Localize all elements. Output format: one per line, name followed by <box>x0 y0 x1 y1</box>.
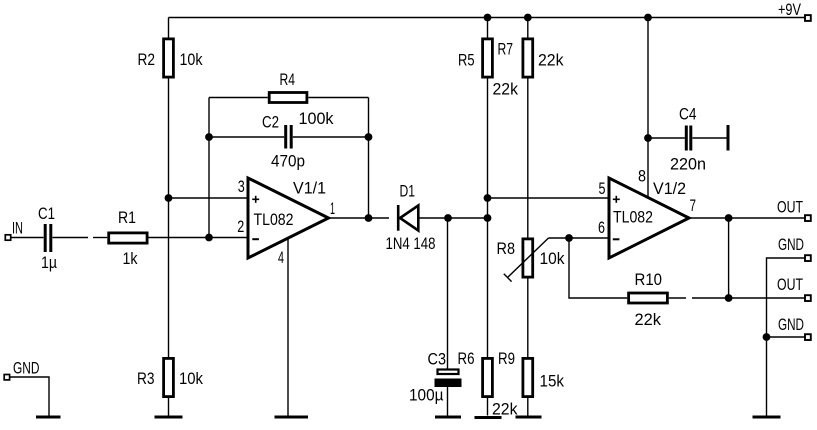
ground (C3) <box>435 416 461 419</box>
capacitor C2 <box>262 113 305 171</box>
svg-text:R3: R3 <box>137 369 155 388</box>
ground (input) <box>36 416 61 419</box>
wire pin3 <box>169 197 249 199</box>
wire C4 right <box>692 137 726 139</box>
wire C2 left <box>209 136 284 138</box>
wire C1-R1 <box>53 237 89 239</box>
wire R7-R8 <box>527 78 529 238</box>
wire pin6 <box>569 237 609 239</box>
node GND1-GND2 <box>763 333 771 341</box>
svg-text:R4: R4 <box>280 70 296 89</box>
OUT terminal 2 <box>777 275 811 301</box>
wire +9V rail <box>169 17 805 19</box>
svg-text:C2: C2 <box>262 113 279 132</box>
wire R2-R3 <box>168 79 170 358</box>
svg-text:TL082: TL082 <box>613 208 653 227</box>
node C3 branch <box>444 214 452 222</box>
wire R4 right <box>308 97 368 99</box>
svg-text:100µ: 100µ <box>409 386 444 405</box>
svg-text:7: 7 <box>690 196 697 215</box>
node bias-pin3 <box>165 194 173 202</box>
svg-text:10k: 10k <box>180 50 203 69</box>
svg-text:22k: 22k <box>492 400 518 419</box>
R8 wiper arrow <box>504 238 569 282</box>
svg-text:470p: 470p <box>271 152 305 171</box>
svg-text:2: 2 <box>237 217 244 236</box>
GND input terminal <box>4 359 39 380</box>
wire C1-R1 second segment <box>93 237 107 239</box>
+9V terminal <box>778 0 811 21</box>
svg-text:1N4 148: 1N4 148 <box>386 234 436 253</box>
wire R4 left <box>209 97 268 99</box>
ground (R6) <box>475 416 502 419</box>
svg-text:3: 3 <box>238 177 245 196</box>
svg-text:OUT: OUT <box>777 275 803 294</box>
capacitor C4 <box>670 105 706 174</box>
wire IN-C1 <box>11 237 44 239</box>
node divider-pin5 <box>484 194 492 202</box>
wire op1 output <box>329 217 390 219</box>
wire pin8 <box>647 18 649 198</box>
svg-text:R10: R10 <box>635 270 663 289</box>
wire R1-pin2 <box>149 237 249 239</box>
op-amp U1 (V1/1 TL082) <box>248 178 329 258</box>
node R10-OUT2 <box>725 294 733 302</box>
svg-text:1k: 1k <box>123 249 138 268</box>
ground (R9) <box>516 416 542 419</box>
svg-text:4: 4 <box>278 248 284 267</box>
wire GND input <box>10 377 49 416</box>
wire C3 <box>447 218 449 369</box>
svg-text:R1: R1 <box>118 208 136 227</box>
svg-text:C3: C3 <box>428 350 447 369</box>
svg-text:V1/2: V1/2 <box>653 179 686 198</box>
wire R5-R6 <box>487 78 489 358</box>
wire OUT-R10 <box>728 218 730 298</box>
svg-text:C4: C4 <box>679 105 697 124</box>
resistor R6 <box>458 349 518 419</box>
wire R10 right <box>669 297 686 299</box>
ground (pin4) <box>275 416 309 419</box>
svg-text:R2: R2 <box>138 50 156 69</box>
svg-text:10k: 10k <box>179 369 203 388</box>
wire R8-R9 <box>527 279 529 358</box>
svg-text:22k: 22k <box>493 80 519 99</box>
wire OUT2 <box>729 297 805 299</box>
svg-text:OUT: OUT <box>777 198 803 217</box>
op-amp U2 (V1/2 TL082) <box>609 178 689 258</box>
wire pin5 <box>488 197 610 199</box>
svg-text:5: 5 <box>599 179 606 198</box>
svg-text:R6: R6 <box>458 349 475 368</box>
diode D1 <box>386 182 436 254</box>
GND terminal 2 <box>778 315 811 340</box>
svg-text:8: 8 <box>638 167 646 186</box>
OUT terminal 1 <box>777 198 811 222</box>
wire D1-divider <box>418 217 487 219</box>
svg-text:GND: GND <box>778 235 804 254</box>
potentiometer R8 <box>497 239 565 277</box>
node rail-R7 <box>524 14 532 22</box>
svg-text:22k: 22k <box>538 51 564 70</box>
node output-OUT <box>725 214 733 222</box>
svg-text:6: 6 <box>598 218 605 237</box>
capacitor C1 <box>38 204 57 272</box>
ground (right) <box>753 416 781 419</box>
svg-text:IN: IN <box>12 219 23 238</box>
svg-text:15k: 15k <box>540 372 565 391</box>
resistor R7 <box>498 18 564 78</box>
wire R10 right second segment <box>692 297 729 299</box>
svg-text:220n: 220n <box>670 155 706 174</box>
wire pin4 <box>287 238 289 416</box>
svg-text:100k: 100k <box>299 109 334 128</box>
C4 end bar <box>727 125 730 151</box>
node feedback-pin2 <box>205 234 213 242</box>
wire GND2 <box>767 336 805 338</box>
wire feedback left <box>208 98 210 238</box>
svg-text:D1: D1 <box>400 182 416 201</box>
node wiper-pin6 <box>565 234 573 242</box>
svg-text:R8: R8 <box>497 239 516 258</box>
node C2 left <box>205 133 213 141</box>
resistor R1 <box>109 208 147 268</box>
IN terminal <box>5 219 23 241</box>
svg-text:GND: GND <box>778 315 804 334</box>
svg-text:V1/1: V1/1 <box>293 179 326 198</box>
resistor R3 <box>137 358 203 415</box>
svg-text:1µ: 1µ <box>41 253 57 272</box>
svg-text:1: 1 <box>330 199 335 218</box>
resistor R9 <box>498 349 564 416</box>
ground (R3) <box>155 416 183 419</box>
svg-text:C1: C1 <box>38 204 55 223</box>
wire C4 left <box>648 137 685 139</box>
wire wiper-R10 <box>569 238 627 298</box>
resistor R5 <box>458 18 518 99</box>
svg-text:22k: 22k <box>635 310 662 329</box>
svg-text:R5: R5 <box>458 51 475 70</box>
svg-text:+9V: +9V <box>778 0 801 19</box>
node C4 left <box>644 134 652 142</box>
wire feedback right <box>368 98 370 219</box>
GND terminal 1 <box>778 235 811 261</box>
svg-text:10k: 10k <box>540 249 565 268</box>
svg-text:GND: GND <box>13 359 40 378</box>
wire GND down <box>766 337 768 416</box>
capacitor C3 <box>409 350 461 416</box>
node output-feedback <box>365 214 373 222</box>
wire op2 output <box>689 217 805 219</box>
node rail-R5 <box>484 14 492 22</box>
node rail-pin8 <box>644 14 652 22</box>
wire GND1 <box>767 258 805 337</box>
wire C2 right <box>293 136 369 138</box>
resistor R2 <box>138 18 203 78</box>
node C2 right <box>365 133 373 141</box>
svg-text:TL082: TL082 <box>254 210 294 229</box>
svg-text:R7: R7 <box>498 40 514 59</box>
node divider-signal <box>484 214 492 222</box>
resistor R4 <box>269 70 334 128</box>
svg-text:R9: R9 <box>498 349 515 368</box>
resistor R10 <box>629 270 668 329</box>
